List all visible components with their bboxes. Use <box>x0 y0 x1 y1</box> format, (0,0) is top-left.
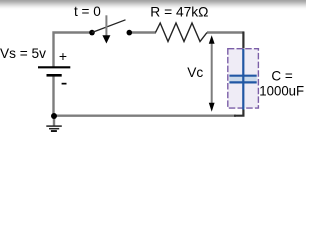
svg-text:t = 0: t = 0 <box>74 3 101 19</box>
svg-text:Vc: Vc <box>187 64 203 80</box>
svg-text:R = 47kΩ: R = 47kΩ <box>150 4 208 20</box>
svg-text:1000uF: 1000uF <box>259 82 304 98</box>
svg-text:C =: C = <box>271 68 292 84</box>
svg-text:Vs = 5v: Vs = 5v <box>0 45 46 61</box>
svg-text:+: + <box>59 48 67 64</box>
